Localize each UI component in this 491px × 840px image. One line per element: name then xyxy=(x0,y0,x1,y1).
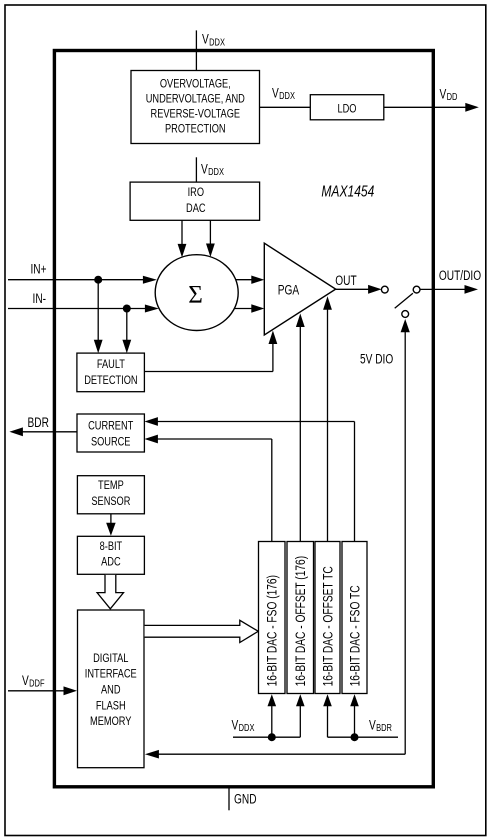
svg-text:IRO: IRO xyxy=(188,185,204,199)
svg-text:DAC: DAC xyxy=(186,201,206,215)
svg-text:ADC: ADC xyxy=(101,554,121,568)
svg-text:DDF: DDF xyxy=(29,679,44,690)
svg-text:8-BIT: 8-BIT xyxy=(100,539,123,553)
svg-text:MEMORY: MEMORY xyxy=(90,714,131,728)
svg-text:V: V xyxy=(369,717,376,732)
svg-text:DDX: DDX xyxy=(208,167,224,178)
svg-text:IN-: IN- xyxy=(33,291,47,306)
svg-text:16-BIT DAC - FSO (176): 16-BIT DAC - FSO (176) xyxy=(265,575,280,686)
svg-text:5V DIO: 5V DIO xyxy=(360,351,393,366)
svg-text:MAX1454: MAX1454 xyxy=(321,184,374,201)
svg-text:OUT/DIO: OUT/DIO xyxy=(439,268,481,283)
svg-text:TEMP: TEMP xyxy=(98,478,124,492)
svg-text:FLASH: FLASH xyxy=(96,698,126,712)
svg-text:V: V xyxy=(440,86,447,101)
svg-text:INTERFACE: INTERFACE xyxy=(85,667,137,681)
svg-text:SOURCE: SOURCE xyxy=(91,434,131,448)
svg-text:BDR: BDR xyxy=(376,723,392,734)
svg-text:V: V xyxy=(232,717,239,732)
svg-text:REVERSE-VOLTAGE: REVERSE-VOLTAGE xyxy=(151,106,241,120)
svg-text:OUT: OUT xyxy=(335,273,356,288)
svg-text:16-BIT DAC - FSO TC: 16-BIT DAC - FSO TC xyxy=(347,585,362,686)
svg-text:GND: GND xyxy=(234,791,257,806)
svg-text:Σ: Σ xyxy=(188,281,203,308)
svg-text:AND: AND xyxy=(101,683,121,697)
svg-text:DETECTION: DETECTION xyxy=(84,373,137,387)
svg-text:V: V xyxy=(201,162,208,177)
svg-text:V: V xyxy=(202,32,209,47)
svg-text:DDX: DDX xyxy=(279,91,295,102)
svg-text:DIGITAL: DIGITAL xyxy=(93,651,128,665)
svg-text:V: V xyxy=(272,86,279,101)
svg-text:UNDERVOLTAGE, AND: UNDERVOLTAGE, AND xyxy=(146,91,245,105)
svg-text:LDO: LDO xyxy=(338,101,357,115)
svg-text:V: V xyxy=(22,673,29,688)
svg-text:CURRENT: CURRENT xyxy=(88,418,134,432)
svg-text:OVERVOLTAGE,: OVERVOLTAGE, xyxy=(160,76,231,90)
svg-text:PGA: PGA xyxy=(278,282,299,297)
svg-text:SENSOR: SENSOR xyxy=(91,494,130,508)
svg-text:DD: DD xyxy=(447,92,458,103)
svg-text:DDX: DDX xyxy=(209,37,225,48)
svg-text:FAULT: FAULT xyxy=(97,357,126,371)
svg-text:BDR: BDR xyxy=(28,415,50,430)
svg-text:DDX: DDX xyxy=(239,723,255,734)
svg-text:PROTECTION: PROTECTION xyxy=(165,122,226,136)
svg-text:IN+: IN+ xyxy=(31,262,47,277)
svg-text:16-BIT DAC - OFFSET TC: 16-BIT DAC - OFFSET TC xyxy=(320,566,335,686)
svg-text:16-BIT DAC - OFFSET (176): 16-BIT DAC - OFFSET (176) xyxy=(293,556,308,687)
